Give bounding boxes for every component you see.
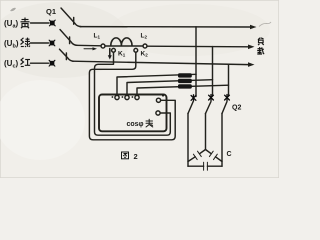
fake glyph FU (load-1)	[258, 38, 264, 40]
CT secondary terminal K2	[134, 48, 138, 52]
capacitor plates right	[209, 151, 217, 159]
wire tap phase A down	[195, 27, 197, 97]
arrow current direction on phase B	[84, 47, 97, 50]
scan smudge top-right	[259, 22, 271, 27]
fake glyph HONG (red)	[21, 58, 31, 67]
switch Q1 blade C	[60, 49, 74, 61]
wire tap phase C down	[228, 64, 230, 96]
arrow phase A to load	[250, 25, 257, 30]
polarity dot T1	[112, 96, 114, 98]
capacitor plates left	[193, 151, 201, 159]
wire phase B under CT	[105, 45, 143, 47]
polarity dot T2	[122, 96, 124, 98]
arrow phase C to load	[248, 62, 255, 67]
svg-text:Q1: Q1	[46, 7, 56, 16]
fake glyph TU (figure)	[122, 152, 129, 159]
svg-text:L1: L1	[94, 33, 101, 40]
arrow phase B to load	[248, 45, 255, 50]
capacitor delta left branch	[188, 150, 206, 162]
meter voltage terminal T2	[125, 95, 129, 99]
svg-text:K2: K2	[141, 51, 149, 58]
CT winding arcs	[111, 38, 132, 46]
capacitor delta right branch	[206, 150, 223, 162]
node (Ua) phase A label lead wire	[31, 22, 50, 24]
fake glyph ZAI (load-2)	[257, 47, 264, 54]
label (Ub) lv	[4, 38, 30, 50]
fuse FU1	[178, 73, 192, 77]
terminal X Q2 pole 3	[225, 95, 230, 101]
meter box cosphi	[99, 95, 167, 132]
terminal X phase C	[49, 60, 55, 66]
polarity dot T4	[162, 95, 164, 97]
arrow secondary current direction down	[108, 49, 112, 60]
terminal X Q2 pole 1	[191, 95, 196, 101]
terminal X phase B	[49, 40, 55, 46]
paper tone patches	[0, 2, 130, 78]
CT primary terminal L2	[143, 44, 147, 48]
wire phase B line right of CT	[147, 45, 249, 48]
capacitor delta bottom branch	[188, 165, 222, 167]
wire T3 voltage lead	[137, 85, 229, 95]
CT primary terminal L1	[101, 44, 105, 48]
svg-text:(Ub): (Ub)	[4, 39, 19, 50]
fake glyph BIAO (meter)	[146, 119, 153, 127]
node (Uc) phase C label lead wire	[31, 62, 49, 64]
polarity dot T3	[132, 96, 134, 98]
svg-text:K1: K1	[118, 51, 126, 58]
wire T2 voltage lead	[127, 80, 213, 96]
wire phase A line	[80, 26, 251, 28]
node (Ub) phase B label lead wire	[31, 42, 49, 44]
scan smudge top-left	[10, 8, 16, 11]
paper background	[0, 0, 279, 178]
svg-text:Q2: Q2	[232, 105, 241, 112]
terminal X phase A	[49, 20, 55, 26]
wire capacitor feeder middle	[205, 114, 207, 150]
fuse FU2	[178, 79, 192, 83]
meter current terminal T5	[156, 111, 160, 115]
wire tap phase B down	[212, 47, 214, 96]
label (Uc) hong	[4, 58, 30, 70]
switch Q2 blade 3	[222, 102, 227, 114]
svg-text:C: C	[227, 151, 232, 158]
wire K1 to meter terminal (inner wrap)	[95, 52, 171, 135]
svg-text:(Ua): (Ua)	[4, 19, 19, 30]
capacitor plates bottom	[204, 162, 208, 170]
switch Q1 blade B	[60, 30, 77, 46]
wire capacitor feeder left	[187, 114, 189, 167]
meter current terminal T4	[156, 98, 160, 102]
wire phase C line	[73, 61, 249, 64]
svg-text:cosφ: cosφ	[127, 121, 144, 128]
fake glyph HUANG (yellow)	[21, 18, 30, 29]
label load (fu zai) vertical	[257, 38, 264, 54]
wire phase B line left of CT	[76, 44, 101, 47]
terminal X Q2 pole 2	[209, 95, 214, 101]
svg-text:L2: L2	[141, 33, 148, 40]
label (Ua) huang	[4, 18, 30, 30]
fake glyph LV (green)	[21, 38, 31, 47]
meter voltage terminal T3	[135, 95, 139, 99]
svg-text:(Uc): (Uc)	[4, 59, 19, 70]
wire capacitor feeder right	[221, 114, 223, 167]
meter voltage terminal T1	[115, 95, 119, 99]
wire K2 to meter terminal (outer wrap)	[89, 52, 175, 140]
switch Q2 blade 1	[188, 102, 193, 114]
switch Q1 blade A	[61, 8, 81, 27]
CT secondary terminal K1	[112, 48, 116, 52]
fuse FU3	[178, 84, 192, 88]
svg-text:2: 2	[134, 152, 138, 161]
switch Q2 blade 2	[206, 102, 212, 114]
label figure 2 (tu 2)	[122, 152, 138, 161]
wire T1 voltage lead	[117, 74, 196, 95]
